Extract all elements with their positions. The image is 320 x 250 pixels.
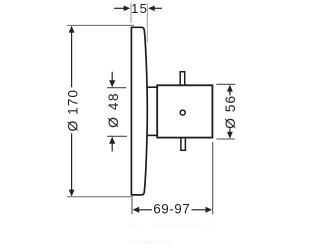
svg-text:Axor Starck 10755: Axor Starck 10755 [127,240,172,246]
svg-text:Axor: Axor [128,223,139,229]
svg-text:Thermostat: Thermostat [174,223,200,229]
svg-text:Ø 56: Ø 56 [223,95,238,129]
svg-text:Ø 170: Ø 170 [65,89,80,132]
svg-text:15: 15 [131,1,148,16]
svg-text:Ø 48: Ø 48 [106,92,121,128]
svg-text:UP: UP [205,223,213,229]
svg-text:69-97: 69-97 [153,201,190,216]
